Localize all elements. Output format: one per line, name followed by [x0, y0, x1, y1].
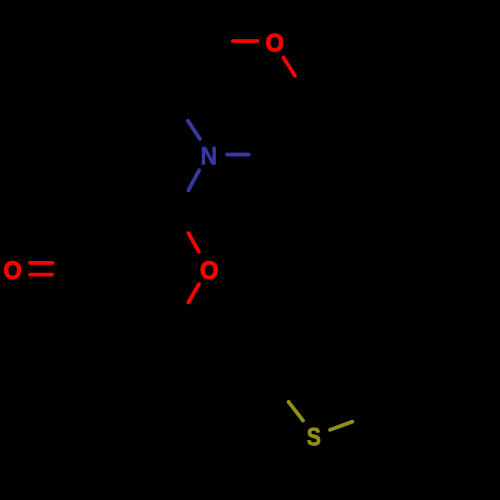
svg-text:O: O: [3, 257, 21, 285]
bond O3=C lower line (carbonyl double bond half): [30, 273, 52, 277]
bond O1-C (morpholine ring, down-right half-bond): [284, 58, 295, 76]
bond CH2-O2 (ether, up-left half-bond): [188, 233, 198, 252]
bond N1-CH2 (exocyclic methylene half-bond, down-left): [189, 170, 200, 190]
bond C-N1 (morpholine ring, up-left half-bond): [188, 121, 200, 139]
bond N1-C (morpholine ring, right horizontal half-bond): [227, 153, 249, 157]
svg-text:O: O: [265, 30, 283, 58]
bond O3=C upper line (carbonyl double bond half): [30, 261, 53, 265]
svg-text:O: O: [200, 257, 218, 285]
bond C-O1 (morpholine ring, left horizontal half-bond): [233, 39, 258, 43]
bond O2-C (ether, down-left half-bond): [188, 284, 199, 302]
bond C-S1 (thiophene ring, up-left half-bond): [289, 402, 303, 421]
svg-text:S: S: [307, 423, 321, 451]
bond S1-C (thiophene ring, up-right half-bond): [330, 422, 352, 430]
svg-text:N: N: [200, 143, 217, 171]
